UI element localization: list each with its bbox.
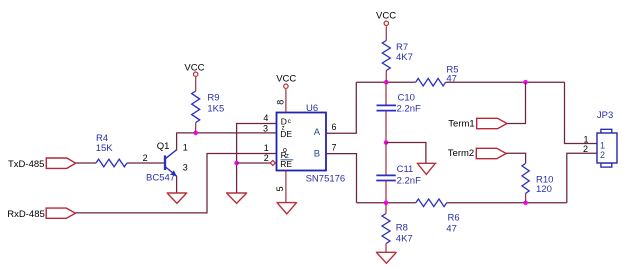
svg-text:4K7: 4K7 [396, 234, 413, 245]
power VCC (above R9) [184, 63, 204, 77]
wire U6 pin 7 (B) to bottom bus [326, 154, 357, 203]
U6 pin name R (rotated) [281, 147, 289, 160]
svg-text:47: 47 [446, 224, 457, 235]
wire mid node to C11 [385, 143, 387, 176]
svg-text:4K7: 4K7 [396, 52, 413, 63]
junction node C10/C11/gnd [384, 140, 389, 145]
no-ERC diamond on pin 2 [270, 161, 275, 166]
resistor R5 [416, 65, 459, 86]
junction node C11/R8 [384, 201, 389, 206]
resistor R10 [522, 163, 553, 195]
svg-text:R9: R9 [207, 92, 219, 103]
svg-text:4: 4 [263, 113, 268, 123]
svg-text:1: 1 [600, 140, 605, 150]
junction node R10 [523, 201, 528, 206]
svg-text:3: 3 [263, 124, 268, 134]
resistor R4 [96, 133, 127, 167]
wire Q1 emitter down [176, 176, 178, 193]
svg-text:RE: RE [280, 159, 292, 169]
ground (cap midpoint) [417, 163, 437, 174]
svg-text:6: 6 [332, 122, 337, 132]
wire bus to R8 [385, 203, 387, 214]
svg-text:VCC: VCC [376, 10, 396, 21]
wire bottom bus B [357, 202, 416, 204]
svg-text:2.2nF: 2.2nF [397, 104, 421, 115]
svg-text:A: A [314, 127, 321, 138]
connector JP3 [597, 110, 617, 167]
wire bus to C10 [385, 82, 387, 105]
transistor Q1 [146, 141, 188, 184]
wire collector node to U6 pin 3 [177, 132, 277, 134]
wire mid node to ground [386, 143, 426, 164]
wire VCC to R7 [385, 26, 387, 40]
svg-text:TxD-485: TxD-485 [8, 159, 44, 170]
svg-text:3: 3 [183, 163, 188, 173]
svg-text:R8: R8 [396, 223, 408, 234]
junction node R9/Q1/pin3 [193, 131, 198, 136]
svg-text:1K5: 1K5 [207, 103, 224, 114]
svg-text:2: 2 [264, 153, 269, 163]
svg-text:C10: C10 [398, 93, 415, 104]
wire U6 pin 6 (A) to top bus [326, 82, 356, 133]
svg-text:2: 2 [143, 153, 148, 163]
junction node pin2 rail [234, 161, 239, 166]
svg-text:Term1: Term1 [448, 119, 474, 130]
wire RxD-485 to U6 pin 1 [75, 154, 276, 213]
svg-text:1: 1 [183, 143, 188, 153]
wire R9 top lead [195, 77, 197, 91]
wire bottom bus to JP3 pin 2 [567, 153, 597, 203]
ground (U6 pin 5) [276, 203, 297, 214]
wire U6 pin 8 to VCC [285, 89, 287, 113]
port TxD-485 [8, 158, 76, 170]
wire top bus A [356, 81, 415, 83]
wire U6 pin 4 to ground rail [237, 124, 277, 194]
wire R4 to Q1 base [127, 162, 164, 164]
svg-text:RxD-485: RxD-485 [7, 209, 45, 220]
wire R9 bottom lead [195, 123, 197, 133]
svg-text:2: 2 [600, 150, 605, 160]
port Term1 [448, 118, 507, 129]
svg-text:VCC: VCC [276, 73, 296, 84]
svg-text:15K: 15K [96, 143, 114, 154]
capacitor C11 [376, 164, 421, 186]
svg-text:DE: DE [280, 129, 292, 139]
svg-text:JP3: JP3 [597, 110, 613, 121]
wire R7 to bus [385, 71, 387, 83]
wire C10 to mid node [385, 111, 387, 143]
power VCC (above U6) [276, 73, 296, 88]
wire Q1 collector up [176, 133, 178, 151]
svg-text:5: 5 [275, 186, 285, 191]
wire Term2 to R10 [506, 153, 525, 163]
ground (pin4/pin2 rail) [226, 193, 247, 203]
power VCC (top) [376, 10, 396, 25]
resistor R9 [192, 91, 225, 123]
wire TxD to R4 [76, 162, 96, 164]
resistor R8 [382, 214, 413, 245]
wire R8 to ground [385, 244, 387, 253]
svg-text:120: 120 [536, 184, 552, 195]
wire U6 pin 2 [237, 162, 271, 164]
resistor R6 [416, 199, 460, 235]
IC U6 SN75176 [277, 103, 346, 184]
resistor R7 [382, 41, 413, 71]
wire Term1 to top bus [507, 82, 526, 123]
port RxD-485 [7, 208, 75, 220]
svg-text:U6: U6 [306, 103, 318, 114]
junction node Term1 [523, 80, 528, 85]
svg-text:1: 1 [584, 135, 589, 145]
svg-text:SN75176: SN75176 [306, 173, 346, 184]
U6 pin name DE [280, 129, 292, 139]
ground (Q1 emitter) [167, 193, 188, 203]
ground (R8) [376, 252, 397, 263]
svg-text:2.2nF: 2.2nF [397, 175, 421, 186]
wire top bus to JP3 pin 1 [565, 82, 598, 143]
svg-text:47: 47 [446, 73, 457, 84]
wire R10 to bottom bus [525, 193, 527, 202]
svg-text:2: 2 [583, 144, 588, 154]
port Term2 [448, 148, 506, 159]
svg-text:1: 1 [264, 143, 269, 153]
U6 pin name D (rotated) [281, 117, 292, 132]
wire C11 to bottom bus [385, 181, 387, 203]
svg-text:Q1: Q1 [157, 141, 170, 152]
U6 pin name RE with overline [280, 159, 293, 169]
svg-text:8: 8 [276, 100, 286, 105]
svg-text:C11: C11 [397, 164, 414, 175]
svg-text:B: B [314, 149, 320, 160]
svg-text:Term2: Term2 [448, 148, 474, 159]
svg-text:BC547: BC547 [146, 172, 175, 183]
wire U6 pin 5 to ground [285, 171, 287, 203]
capacitor C10 [377, 93, 421, 115]
svg-text:R6: R6 [448, 213, 460, 224]
junction node R7/C10 [384, 80, 389, 85]
svg-text:7: 7 [332, 142, 337, 152]
